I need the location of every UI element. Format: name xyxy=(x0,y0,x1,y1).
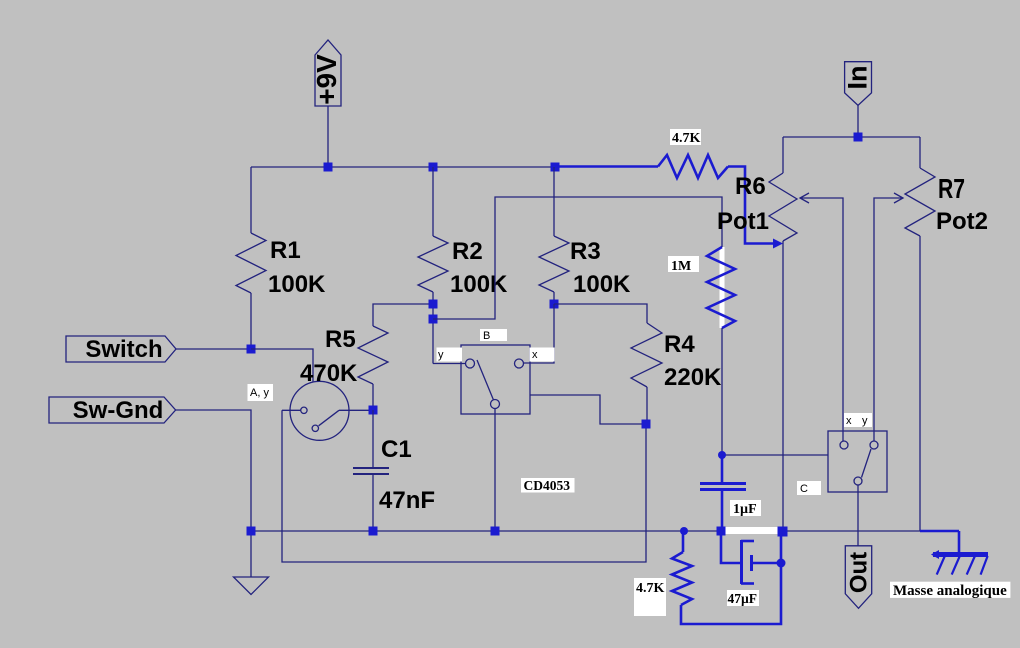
svg-text:In: In xyxy=(843,66,873,90)
svg-text:R5: R5 xyxy=(325,326,356,353)
wire In to node xyxy=(857,105,859,137)
wire In node bus xyxy=(783,136,920,138)
svg-text:A, y: A, y xyxy=(250,387,269,399)
label y xyxy=(437,348,463,362)
junction R2/R5 xyxy=(429,300,438,309)
label 4.7K bottom xyxy=(634,578,666,616)
svg-text:x: x xyxy=(532,349,538,361)
node dot bus/4.7K bottom xyxy=(680,527,688,535)
label x xyxy=(530,348,555,362)
junction bus/Sw-Gnd xyxy=(247,527,256,536)
junction R3/R4 xyxy=(550,300,559,309)
svg-text:Sw-Gnd: Sw-Gnd xyxy=(73,397,164,424)
label A, y xyxy=(248,384,274,401)
switch A (CD4053 section A) xyxy=(290,381,349,440)
resistor R3 xyxy=(539,167,631,304)
label x y xyxy=(844,413,872,427)
power flag +9V xyxy=(311,40,342,106)
label C xyxy=(797,481,821,495)
junction bus/C1 xyxy=(369,527,378,536)
wire +9V to top bus xyxy=(327,106,329,167)
junction at R2/top bus xyxy=(429,163,438,172)
svg-text:470K: 470K xyxy=(300,360,358,387)
svg-text:y: y xyxy=(438,349,444,361)
wire switch B common to bus xyxy=(494,409,496,532)
junction bus/1uF xyxy=(717,527,726,536)
svg-text:Out: Out xyxy=(846,552,873,593)
svg-text:R7: R7 xyxy=(938,173,965,204)
capacitor C1 xyxy=(353,410,435,531)
svg-text:C1: C1 xyxy=(381,436,412,463)
wire feedback net xyxy=(282,410,646,562)
resistor 4.7K bottom xyxy=(672,531,781,624)
svg-text:Switch: Switch xyxy=(85,336,162,363)
svg-text:100K: 100K xyxy=(268,271,326,298)
svg-text:+9V: +9V xyxy=(311,54,342,105)
svg-text:R1: R1 xyxy=(270,237,301,264)
junction In xyxy=(854,133,863,142)
wire top bus xyxy=(251,166,555,168)
svg-text:y: y xyxy=(862,415,868,427)
svg-text:B: B xyxy=(483,330,490,342)
label 1uF xyxy=(730,500,761,517)
ground analog (Masse) xyxy=(920,531,988,575)
wire switch A common to R5/C1 node xyxy=(339,409,373,411)
wire R2 node to 1M xyxy=(433,197,722,319)
potentiometer R7 Pot2 xyxy=(874,137,988,531)
svg-text:100K: 100K xyxy=(450,271,508,298)
wire R2 node to switch B input y xyxy=(433,363,466,365)
svg-text:220K: 220K xyxy=(664,364,722,391)
svg-text:Pot1: Pot1 xyxy=(717,208,769,235)
port flag Switch xyxy=(66,336,176,363)
junction R2/1M wire xyxy=(429,315,438,324)
resistor 4.7K top xyxy=(555,155,783,249)
capacitor 47uF xyxy=(721,531,781,584)
ground xyxy=(234,577,269,595)
port flag In xyxy=(843,62,873,106)
svg-text:Masse analogique: Masse analogique xyxy=(893,583,1007,599)
svg-text:R6: R6 xyxy=(735,173,766,200)
svg-text:4.7K: 4.7K xyxy=(636,581,665,596)
label 4.7K xyxy=(670,129,701,146)
label CD4053 xyxy=(521,478,575,493)
label B xyxy=(480,329,507,342)
svg-text:1M: 1M xyxy=(671,259,691,274)
wire Switch to node xyxy=(176,348,251,350)
switch B (CD4053 section B) xyxy=(461,345,530,414)
potentiometer R6 Pot1 xyxy=(717,137,843,531)
resistor 1M xyxy=(707,247,735,455)
resistor R5 xyxy=(300,304,433,409)
resistor R1 xyxy=(236,167,326,349)
svg-text:100K: 100K xyxy=(573,271,631,298)
svg-text:4.7K: 4.7K xyxy=(672,131,701,146)
svg-text:R2: R2 xyxy=(452,238,483,265)
svg-text:CD4053: CD4053 xyxy=(524,478,571,493)
wire switch A input from feedback xyxy=(282,409,301,411)
capacitor 1uF xyxy=(700,455,746,531)
svg-text:Pot2: Pot2 xyxy=(936,208,988,235)
wire 1M node to switch C xyxy=(722,454,828,456)
label 1M xyxy=(668,256,699,274)
junction R5/C1/switch A xyxy=(369,406,378,415)
port flag Out xyxy=(845,546,872,609)
wire main bottom bus xyxy=(251,530,920,532)
wire Switch node to switch A xyxy=(251,349,313,382)
svg-text:R4: R4 xyxy=(664,331,695,358)
svg-text:x: x xyxy=(846,415,852,427)
label Masse analogique xyxy=(890,582,1010,599)
resistor R2 xyxy=(418,167,508,364)
wire switch C common to Out xyxy=(857,485,859,546)
node dot 47uF/4.7K loop xyxy=(777,559,786,568)
junction bus/R6 xyxy=(778,527,788,537)
junction at +9V/top bus xyxy=(324,163,333,172)
svg-text:47nF: 47nF xyxy=(379,487,435,514)
svg-text:R3: R3 xyxy=(570,238,601,265)
label 47uF xyxy=(727,590,759,606)
wire Sw-Gnd to ground xyxy=(176,410,251,577)
label strip on bus xyxy=(722,527,778,534)
junction R4/switch B/feedback xyxy=(642,420,651,429)
wire switch B output to R4 node xyxy=(530,395,646,424)
junction at R3/4.7K/top bus xyxy=(551,163,560,172)
junction Switch/R1 xyxy=(247,345,256,354)
port flag Sw-Gnd xyxy=(49,397,176,424)
node dot 1M/1uF/switch C xyxy=(718,451,726,459)
junction bus/switch B xyxy=(491,527,500,536)
svg-text:C: C xyxy=(800,483,808,495)
svg-text:1µF: 1µF xyxy=(733,502,757,517)
svg-text:47µF: 47µF xyxy=(728,591,758,606)
wire R3 node to switch B input x xyxy=(524,304,555,363)
switch C (CD4053 section C) xyxy=(828,431,887,492)
resistor R4 xyxy=(554,304,722,424)
